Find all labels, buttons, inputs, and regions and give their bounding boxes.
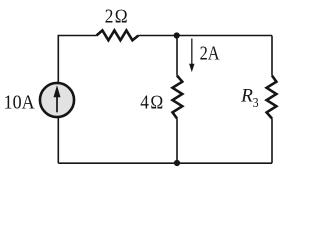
svg-text:4Ω: 4Ω [140,93,165,114]
wire: top junction down to 4-ohm resistor [176,36,178,76]
wire: 2-ohm resistor to top junction and on to node B top-right corner [138,35,272,37]
label: R3 reference designator [240,85,258,111]
wire: R3 to bottom-right corner [271,119,273,164]
wire: bottom rail [58,162,272,164]
junction: bottom node dot [174,160,180,166]
wire: 4-ohm resistor to bottom junction [176,119,178,164]
resistor R2 4ohm zigzag [173,76,183,119]
svg-text:2A: 2A [200,44,220,65]
svg-text:R: R [240,85,253,106]
wire: right branch top, node B down to R3 [271,36,273,76]
resistor R3 zigzag [267,76,277,119]
current source I1 [40,83,74,117]
wire: bottom-left corner up to current source [57,116,59,163]
resistor R1 2ohm zigzag [97,30,139,40]
svg-text:2Ω: 2Ω [105,7,130,28]
junction: top node dot [174,32,180,38]
current arrow: 2A branch current [189,39,194,73]
wire: left branch top, from current source up and across to 2-ohm resistor [58,36,96,85]
svg-text:3: 3 [253,96,259,111]
svg-text:10A: 10A [4,93,35,114]
